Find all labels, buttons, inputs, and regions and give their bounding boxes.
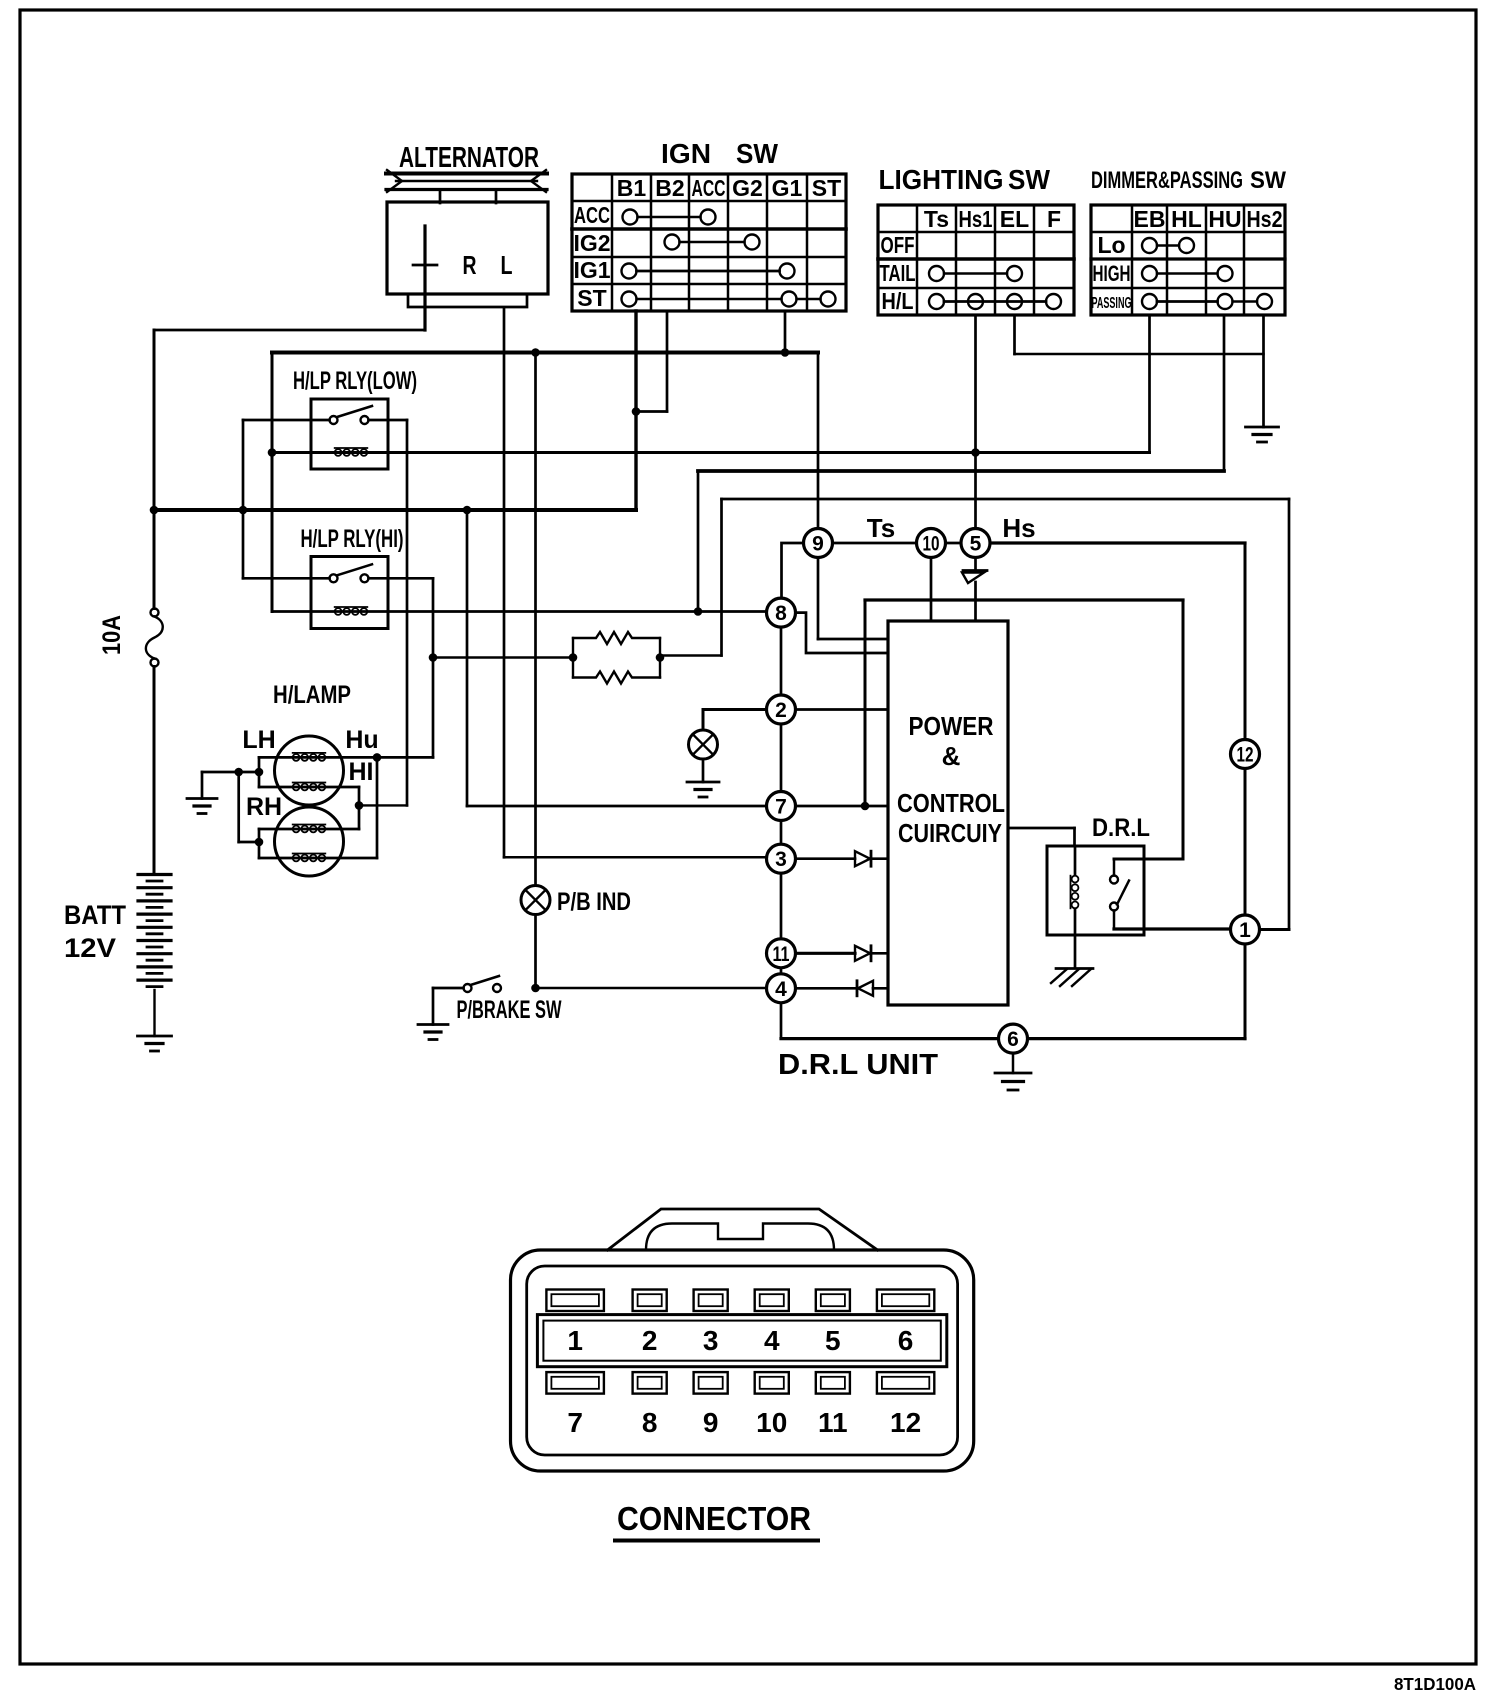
svg-text:EB: EB	[1134, 206, 1166, 232]
svg-text:DIMMER&PASSING: DIMMER&PASSING	[1091, 167, 1243, 194]
svg-text:HI: HI	[349, 758, 374, 786]
svg-text:11: 11	[773, 943, 790, 966]
svg-text:RH: RH	[246, 793, 282, 821]
svg-text:Lo: Lo	[1097, 232, 1125, 258]
svg-text:12: 12	[890, 1407, 921, 1438]
svg-text:12V: 12V	[64, 933, 116, 963]
svg-text:SW: SW	[1250, 167, 1286, 194]
svg-text:7: 7	[775, 796, 787, 819]
svg-text:F: F	[1047, 206, 1061, 232]
svg-text:2: 2	[775, 699, 787, 722]
svg-text:12: 12	[1237, 744, 1254, 767]
svg-text:1: 1	[1239, 919, 1251, 942]
svg-text:OFF: OFF	[881, 232, 915, 258]
svg-text:CONNECTOR: CONNECTOR	[617, 1500, 811, 1537]
svg-text:H/LAMP: H/LAMP	[273, 681, 351, 709]
svg-text:P/BRAKE SW: P/BRAKE SW	[457, 996, 562, 1024]
svg-text:G1: G1	[772, 175, 803, 201]
svg-text:LH: LH	[242, 726, 275, 754]
svg-text:HU: HU	[1208, 206, 1241, 232]
svg-text:LIGHTING: LIGHTING	[879, 164, 1004, 195]
svg-text:BATT: BATT	[64, 900, 126, 930]
svg-text:3: 3	[775, 848, 787, 871]
svg-text:8T1D100A: 8T1D100A	[1394, 1674, 1476, 1694]
svg-text:G2: G2	[732, 175, 763, 201]
svg-text:11: 11	[818, 1407, 848, 1438]
svg-text:POWER: POWER	[909, 711, 994, 741]
svg-text:Hs2: Hs2	[1247, 206, 1283, 232]
svg-text:ST: ST	[577, 285, 606, 311]
svg-text:8: 8	[642, 1407, 658, 1438]
svg-text:ACC: ACC	[574, 202, 610, 228]
svg-text:R: R	[463, 250, 477, 280]
svg-text:H/L: H/L	[882, 288, 914, 314]
svg-text:3: 3	[703, 1325, 719, 1356]
svg-text:10: 10	[923, 533, 940, 556]
svg-text:CUIRCUIY: CUIRCUIY	[898, 818, 1002, 848]
svg-text:10: 10	[756, 1407, 787, 1438]
svg-text:L: L	[501, 250, 513, 280]
svg-text:5: 5	[970, 533, 982, 556]
svg-text:H/LP RLY(HI): H/LP RLY(HI)	[301, 525, 404, 553]
svg-text:4: 4	[764, 1325, 780, 1356]
svg-text:ST: ST	[812, 175, 841, 201]
svg-text:D.R.L: D.R.L	[1092, 814, 1150, 842]
svg-text:IG1: IG1	[573, 257, 610, 283]
svg-text:9: 9	[703, 1407, 719, 1438]
svg-text:HL: HL	[1171, 206, 1202, 232]
svg-text:5: 5	[825, 1325, 841, 1356]
svg-text:6: 6	[898, 1325, 914, 1356]
svg-text:TAIL: TAIL	[880, 260, 916, 286]
svg-text:Ts: Ts	[867, 513, 895, 543]
svg-text:Hs1: Hs1	[959, 206, 993, 232]
svg-text:B2: B2	[655, 175, 684, 201]
svg-text:SW: SW	[1008, 164, 1051, 195]
svg-text:10A: 10A	[98, 615, 126, 655]
svg-text:SW: SW	[736, 138, 779, 169]
svg-text:2: 2	[642, 1325, 658, 1356]
svg-text:EL: EL	[1000, 206, 1029, 232]
svg-text:&: &	[942, 741, 961, 771]
svg-text:ALTERNATOR: ALTERNATOR	[399, 142, 539, 174]
svg-text:IGN: IGN	[661, 138, 711, 169]
svg-text:ACC: ACC	[692, 175, 726, 201]
svg-text:4: 4	[775, 978, 787, 1001]
svg-text:Hu: Hu	[345, 726, 378, 754]
svg-text:CONTROL: CONTROL	[897, 788, 1005, 818]
svg-text:1: 1	[567, 1325, 583, 1356]
svg-text:8: 8	[775, 602, 787, 625]
svg-text:B1: B1	[617, 175, 647, 201]
svg-text:P/B IND: P/B IND	[557, 888, 631, 916]
svg-text:D.R.L UNIT: D.R.L UNIT	[778, 1049, 938, 1081]
svg-text:Hs: Hs	[1002, 513, 1035, 543]
svg-text:HIGH: HIGH	[1093, 261, 1131, 286]
svg-text:IG2: IG2	[573, 230, 610, 256]
svg-text:H/LP RLY(LOW): H/LP RLY(LOW)	[293, 367, 417, 395]
svg-text:9: 9	[812, 533, 824, 556]
svg-text:6: 6	[1007, 1028, 1019, 1051]
svg-text:PASSING: PASSING	[1092, 295, 1132, 312]
svg-text:Ts: Ts	[924, 206, 949, 232]
svg-text:7: 7	[567, 1407, 583, 1438]
